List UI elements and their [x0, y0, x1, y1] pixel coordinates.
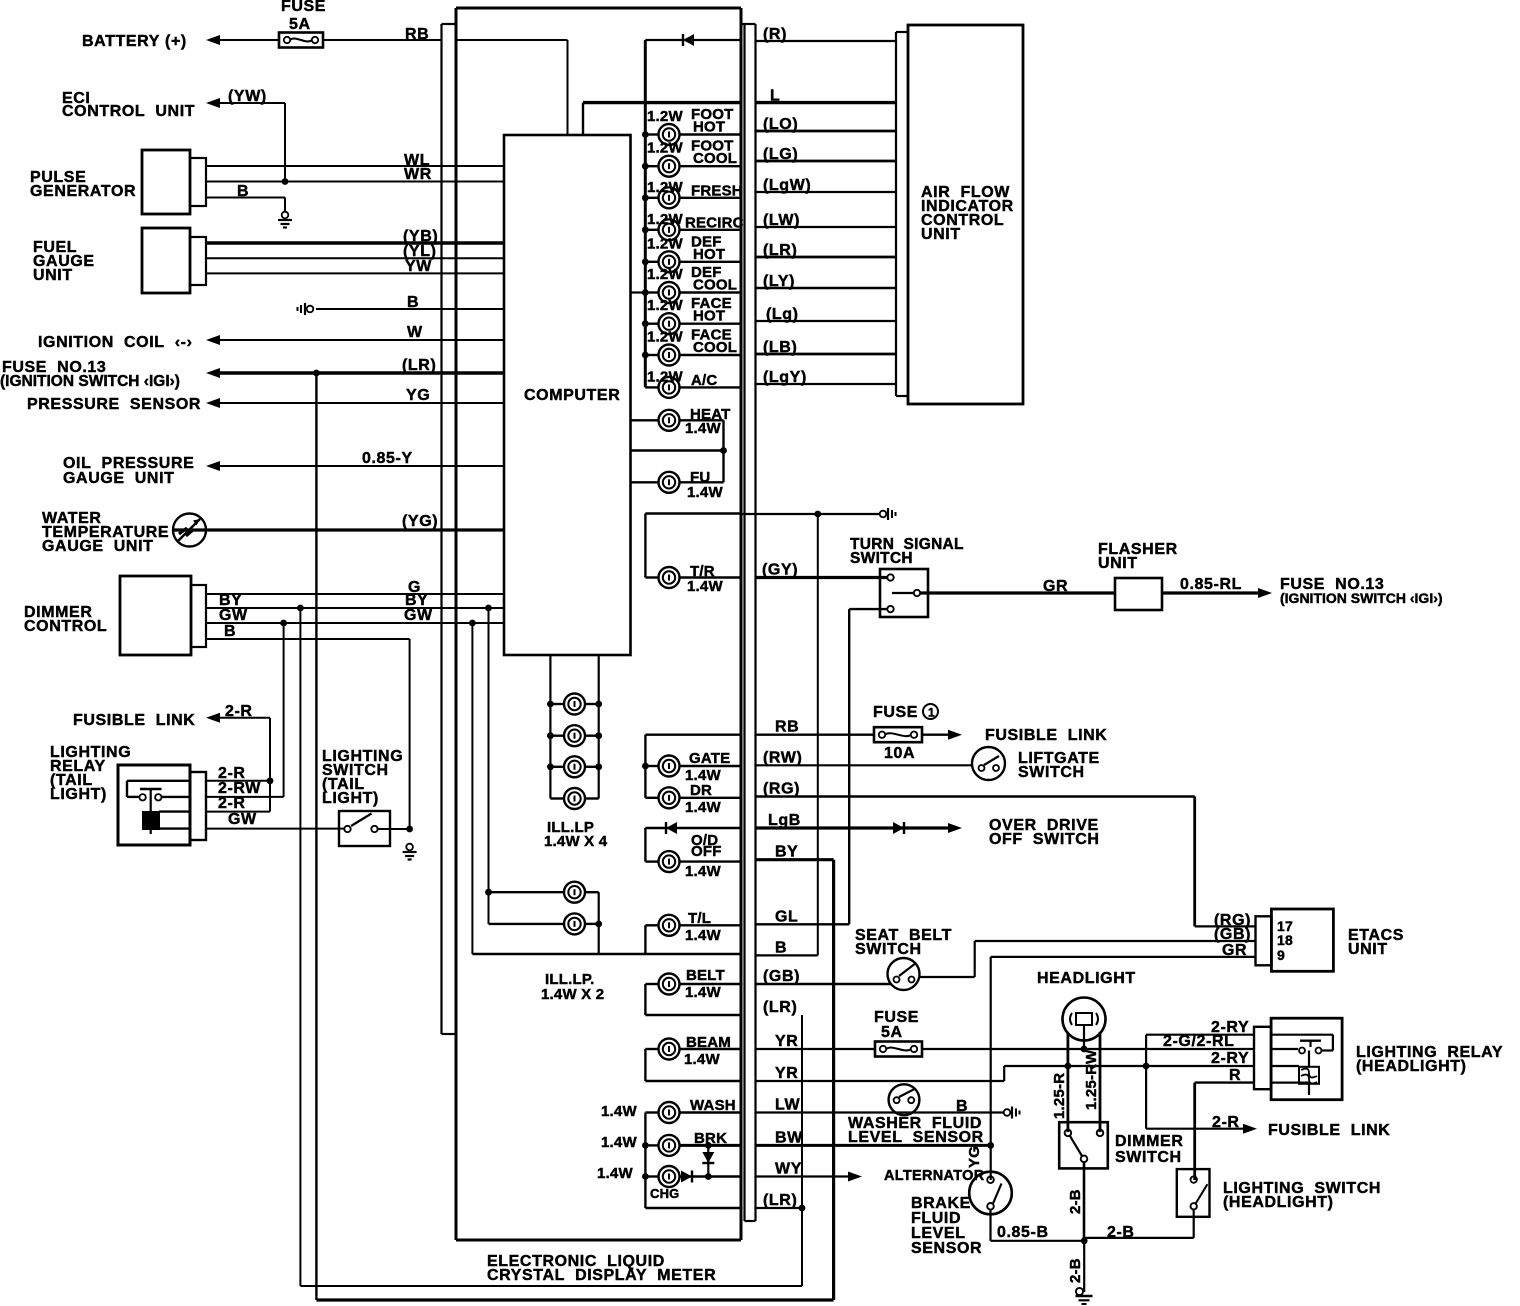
lamp BELT 1.4W [645, 974, 741, 995]
wire R vertical to lighting switch headlight [1193, 1083, 1196, 1180]
wire W [218, 339, 504, 341]
label FLASHER UNIT [1098, 541, 1178, 572]
wire seat belt to etacs riser [920, 941, 975, 977]
arrow to oil pressure gauge [206, 461, 220, 471]
wire RB inside meter to computer drop [456, 39, 568, 41]
lamp ILL.LP2-1 [485, 882, 599, 903]
svg-text:FUSIBLE LINK: FUSIBLE LINK [73, 712, 195, 729]
brake fluid level sensor symbol [969, 1172, 1012, 1215]
label FUSE 1 10A [873, 704, 938, 762]
svg-text:(GB): (GB) [763, 968, 800, 985]
svg-text:LIGHT): LIGHT) [50, 786, 107, 803]
dimmer control box [120, 576, 206, 655]
svg-text:LW: LW [775, 1097, 800, 1114]
wire (LW) to air flow unit [756, 226, 897, 228]
label RB right side [775, 719, 799, 736]
right connector strip [741, 24, 756, 1221]
label (RG) right side [763, 781, 800, 798]
label ELECTRONIC LIQUID CRYSTAL DISPLAY METER [487, 1253, 716, 1284]
label R relay [1229, 1067, 1241, 1084]
wire 2-G/2-RL fuse to relay [922, 1048, 1254, 1050]
svg-text:CONTROL UNIT: CONTROL UNIT [62, 103, 195, 120]
label BRAKE FLUID LEVEL SENSOR [911, 1195, 982, 1257]
lamp WASH 1.4W [645, 1102, 741, 1123]
label BW right side [775, 1129, 803, 1146]
wire GL up to turn signal [849, 609, 887, 924]
wire YR2 right [756, 1080, 1005, 1082]
label FUSE NO.13 (IGNITION SWITCH) right [1280, 576, 1443, 606]
lamp ILL.LP2-2 [489, 913, 603, 934]
label FUSE 5A right [874, 1009, 919, 1041]
wire 2-R fusible vertical [1145, 1035, 1147, 1129]
svg-text:RB: RB [775, 719, 799, 736]
label B pulse generator [237, 183, 249, 200]
lamp ILL.LP4-2 [547, 725, 602, 746]
wire diode feed horizontal y40 [645, 39, 741, 41]
label O/D OFF [685, 832, 722, 880]
label BY right [405, 592, 428, 609]
label B dimmer [224, 623, 236, 640]
label 0.85-Y [362, 450, 413, 467]
label (LR) right side [763, 999, 797, 1016]
wire BW to brake net [756, 1144, 991, 1147]
wire LR-net bottom horizontal [316, 1298, 833, 1301]
junction headlight tap [1081, 1046, 1088, 1053]
lamp FOOT COOL 1.2W [642, 156, 741, 177]
label HEADLIGHT [1037, 970, 1136, 987]
label FUSIBLE LINK left [73, 712, 195, 729]
wire (LR) fuse no13 [218, 371, 504, 374]
svg-text:(LY): (LY) [763, 273, 795, 290]
label (LO) [763, 116, 798, 133]
svg-text:B: B [237, 183, 249, 200]
lamp O/D OFF 1.4W [645, 851, 741, 872]
wire (RG) vertical [1193, 797, 1196, 927]
water temperature gauge symbol [173, 514, 206, 547]
wire (R) to air flow unit [756, 40, 897, 42]
label (Lg) [766, 306, 799, 323]
wire (YG) water temp [174, 528, 504, 531]
svg-text:2-RY: 2-RY [1211, 1019, 1249, 1036]
wire 2-RW relay pin2 [206, 796, 284, 798]
lamp BEAM 1.4W [645, 1039, 741, 1060]
svg-text:GL: GL [775, 908, 798, 925]
wire DEF COOL feed from computer [631, 291, 646, 293]
wire 2-RW vertical up to GW [283, 623, 285, 797]
junction (LR)/vertical 316 [313, 370, 320, 377]
wire fuse 10A to fusible link [922, 734, 948, 736]
label GR flasher [1043, 578, 1068, 595]
svg-text:FUSIBLE LINK: FUSIBLE LINK [1268, 1122, 1390, 1139]
wire (GB) to seat belt switch [756, 983, 892, 985]
junction 2-RY/1.25-R [1065, 1063, 1072, 1070]
computer box U1 [504, 135, 631, 655]
label WATER TEMPERATURE GAUGE UNIT [42, 510, 169, 555]
svg-text:1.2W: 1.2W [647, 235, 683, 252]
svg-text:2-R: 2-R [218, 795, 246, 812]
label OVER DRIVE OFF SWITCH [989, 817, 1100, 848]
lamp A/C 1.2W [645, 377, 741, 398]
svg-text:UNIT: UNIT [921, 226, 961, 243]
label (LB) [763, 339, 797, 356]
wire B down to ground [284, 198, 286, 213]
label 2-RY lower [1211, 1050, 1249, 1067]
svg-text:2-B: 2-B [1067, 1258, 1084, 1283]
svg-text:0.85-B: 0.85-B [997, 1224, 1049, 1241]
svg-text:1.2W: 1.2W [647, 297, 683, 314]
label 1.25-RW [1083, 1049, 1100, 1110]
label GL right side [775, 908, 798, 925]
wire (GB) to etacs pin 18 [975, 940, 1256, 942]
svg-text:2-R: 2-R [1212, 1114, 1240, 1131]
wire O/D cell top [645, 827, 741, 829]
svg-text:UNIT: UNIT [33, 267, 73, 284]
label LgB right side [768, 812, 801, 829]
label SEAT BELT SWITCH [855, 927, 952, 958]
label LIGHTING SWITCH (TAIL LIGHT) [322, 748, 403, 807]
wire BY-net vertical x300 [299, 608, 301, 1286]
lamp RECIRC 1.2W [642, 219, 741, 240]
fuse F2 10A symbol [874, 727, 922, 742]
label BEAM [684, 1034, 731, 1068]
wire (RW) to liftgate switch [756, 764, 973, 766]
svg-text:CRYSTAL DISPLAY METER: CRYSTAL DISPLAY METER [487, 1267, 716, 1284]
label BATTERY (+) [82, 33, 187, 50]
svg-text:L: L [770, 88, 780, 105]
junction GW/vertical 283 [280, 620, 287, 627]
svg-text:BEAM: BEAM [686, 1034, 731, 1051]
label FUSE NO.13 (IGNITION SWITCH) [0, 359, 180, 390]
label 2-RW [218, 780, 261, 797]
ill lamp rails from computer [550, 655, 598, 799]
wire RB to fuse 10A [756, 734, 875, 736]
svg-text:WASH: WASH [690, 1097, 736, 1114]
svg-text:(HEADLIGHT): (HEADLIGHT) [1356, 1058, 1467, 1075]
wire CHG cell bottom [645, 1207, 741, 1209]
chassis ground washer [1004, 1107, 1020, 1119]
svg-text:(Lg): (Lg) [766, 306, 799, 323]
label ETACS UNIT [1348, 927, 1404, 958]
wire T/L cell left edge [644, 925, 646, 954]
junction BW/GR [987, 1142, 994, 1149]
wire (LgW) to air flow unit [756, 191, 897, 193]
svg-text:YR: YR [775, 1033, 798, 1050]
junction 2-R [267, 777, 274, 784]
lamp HEAT 1.4W [631, 410, 724, 431]
svg-text:1.4W: 1.4W [685, 420, 721, 437]
label AIR FLOW INDICATOR CONTROL UNIT [921, 184, 1014, 243]
lamp T/R 1.4W [645, 567, 741, 588]
wire (LR)2 right [756, 1207, 803, 1209]
label YR right side [775, 1033, 798, 1050]
svg-text:(R): (R) [763, 26, 787, 43]
wire 2-R relay pin1 [206, 780, 270, 782]
svg-text:1.4W: 1.4W [687, 484, 723, 501]
svg-text:LEVEL SENSOR: LEVEL SENSOR [848, 1129, 984, 1146]
svg-text:GW: GW [219, 607, 248, 624]
arrow to fusible link left [206, 713, 220, 723]
label PRESSURE SENSOR [27, 396, 201, 413]
wire G dimmer [206, 593, 504, 595]
lighting relay headlight connector strip [1254, 1027, 1271, 1089]
ground pulse generator [278, 212, 292, 228]
label FACE HOT [647, 295, 732, 325]
svg-text:1.4W: 1.4W [601, 1103, 637, 1120]
wire 1.25-RW headlight to dimmer switch [1099, 1032, 1102, 1132]
svg-text:18: 18 [1277, 932, 1293, 948]
svg-text:YR: YR [775, 1065, 798, 1082]
label DIMMER SWITCH [1115, 1133, 1183, 1166]
lamp T/L 1.4W [645, 915, 741, 936]
junction 2-RY/fusible vertical [1143, 1063, 1150, 1070]
wire lighting switch tail to B vertical [378, 828, 410, 830]
label 2-R pin1 [218, 765, 246, 782]
svg-text:ALTERNATOR: ALTERNATOR [884, 1168, 985, 1184]
fuel gauge unit box [142, 228, 206, 293]
label GW near connector [219, 607, 248, 624]
label IGNITION COIL [38, 334, 193, 351]
label (GY) right side [762, 562, 798, 579]
label FOOT HOT [647, 106, 733, 136]
svg-text:A/C: A/C [691, 372, 717, 389]
arrow over drive [948, 823, 962, 833]
fuse F1 5A symbol [279, 33, 323, 48]
wire WL [206, 165, 504, 167]
wire GW dimmer [206, 622, 504, 624]
svg-text:UNIT: UNIT [1098, 555, 1138, 572]
wire GW relay pin4 to lighting switch [206, 828, 344, 830]
wire LR-net vertical x833 up [832, 860, 835, 1300]
label OIL PRESSURE GAUGE UNIT [63, 455, 194, 487]
diode CHG [681, 1171, 692, 1183]
svg-text:0.85-RL: 0.85-RL [1180, 576, 1242, 593]
junction tail switch / B vertical [406, 826, 413, 833]
lamp FACE COOL 1.2W [642, 345, 741, 366]
label YG vertical [966, 1146, 983, 1168]
svg-text:HOT: HOT [693, 246, 725, 263]
diode BRK vertical [702, 1142, 714, 1180]
lighting relay tail box [118, 765, 206, 845]
svg-text:(LR): (LR) [763, 242, 797, 259]
lamp CHG 1.4W [642, 1166, 741, 1187]
wire (LY) to air flow unit [756, 287, 897, 289]
wire 2-B to ground [1083, 1241, 1085, 1292]
arrow to pressure sensor [206, 398, 220, 408]
label YR2 right side [775, 1065, 798, 1082]
arrow to fuse no13 [206, 368, 220, 378]
air flow connector strip [896, 32, 908, 396]
wire BY dimmer [206, 607, 504, 609]
wire 2-RY upper to relay [1146, 1034, 1254, 1036]
svg-text:SWITCH: SWITCH [1018, 764, 1085, 781]
svg-text:2-B: 2-B [1107, 1224, 1135, 1241]
junction 2-B [1081, 1237, 1088, 1244]
svg-text:1.4W X 2: 1.4W X 2 [541, 986, 604, 1003]
wire (YW) vertical to WR junction [284, 103, 286, 182]
svg-text:DIMMER: DIMMER [1115, 1133, 1183, 1150]
washer fluid level sensor symbol [889, 1084, 920, 1115]
wire fusible link 2-R [218, 717, 270, 719]
label etacs pins 17 18 9 [1277, 918, 1293, 963]
wire (YB) [206, 241, 504, 244]
wire brake sensor output [991, 1210, 1085, 1241]
wire (LgY) to air flow unit [756, 383, 897, 385]
wire GATE cell left edge [644, 735, 646, 798]
fuse 5A label top-left [281, 0, 326, 33]
label (GB) etacs [1214, 926, 1251, 943]
label BY right side [775, 844, 798, 861]
svg-text:1.2W: 1.2W [647, 368, 683, 385]
svg-text:GAUGE UNIT: GAUGE UNIT [42, 538, 154, 555]
wire ground line y514 [741, 513, 880, 515]
wire L horizontal [583, 101, 741, 104]
arrow to fuse no13 right [1258, 588, 1272, 598]
label WL [404, 152, 430, 169]
label (YW) [228, 88, 267, 105]
wire (LR) to air flow unit [756, 256, 897, 259]
svg-text:BW: BW [775, 1129, 803, 1146]
svg-text:FUSE: FUSE [281, 0, 326, 15]
svg-text:T/L: T/L [688, 910, 711, 927]
ETACS unit box [1271, 909, 1333, 971]
svg-text:(LgW): (LgW) [763, 177, 811, 194]
svg-text:B: B [407, 294, 419, 311]
label (R) [763, 26, 787, 43]
svg-text:LIGHT): LIGHT) [322, 790, 379, 807]
label BRK [601, 1130, 727, 1151]
svg-text:UNIT: UNIT [1348, 941, 1388, 958]
left connector strip [442, 24, 457, 1034]
lighting relay headlight internals [1271, 1035, 1333, 1095]
wire GW-net vertical x472 [471, 623, 473, 954]
wire BY right to LR-net vertical [756, 858, 834, 861]
wire (RG) to etacs pin 17 [1195, 925, 1256, 927]
label BELT [685, 967, 725, 1001]
svg-text:RECIRC: RECIRC [685, 214, 744, 231]
label HEAT [685, 406, 731, 437]
label 2-R top [225, 703, 253, 720]
svg-text:1.4W: 1.4W [685, 984, 721, 1001]
junction GW/vertical 472 [469, 620, 476, 627]
wire 2-R to fusible link [1146, 1128, 1243, 1130]
label DR [685, 782, 721, 816]
svg-text:(LgY): (LgY) [763, 369, 807, 386]
arrow alternator [848, 1172, 862, 1182]
wire (RG) to ETACS [756, 795, 1195, 797]
label CHG [597, 1165, 680, 1201]
label FUSIBLE LINK right [985, 727, 1107, 744]
flasher unit box [1115, 578, 1162, 610]
junction heat/fu [720, 447, 727, 454]
label RB [405, 26, 429, 43]
wire BEAM cell left+bottom [645, 1049, 741, 1081]
chassis ground turn signal area [880, 508, 896, 520]
lamp FACE HOT 1.2W [642, 313, 741, 334]
svg-text:HOT: HOT [693, 308, 725, 325]
dimmer switch contacts and blade [1065, 1130, 1104, 1163]
wire (YW) horizontal [218, 102, 285, 104]
label (LY) [763, 273, 795, 290]
label (LR) [763, 242, 797, 259]
seat belt switch symbol [888, 958, 920, 990]
label GW right [404, 607, 433, 624]
svg-text:YG: YG [966, 1146, 983, 1168]
label ILL.LP 1.4W X 4 [544, 819, 608, 850]
wire BY-net vertical x802 up [801, 1015, 803, 1286]
wire BY-net vertical x488 to ill lamps [488, 608, 490, 924]
wire (LG) to air flow unit [756, 160, 897, 163]
svg-text:BELT: BELT [686, 967, 725, 984]
diode O/D [666, 822, 677, 834]
electronic liquid crystal display meter box [456, 8, 741, 1240]
label (LW) [763, 212, 800, 229]
label TURN SIGNAL SWITCH [850, 536, 964, 567]
svg-text:BATTERY (+): BATTERY (+) [82, 33, 187, 50]
svg-text:(IGNITION SWITCH ‹IGI›): (IGNITION SWITCH ‹IGI›) [1280, 590, 1443, 606]
label (LgY) [763, 369, 807, 386]
wire T/R top [645, 512, 741, 514]
svg-text:FRESH: FRESH [691, 182, 743, 199]
svg-text:1.4W: 1.4W [685, 927, 721, 944]
wire WY to alternator [756, 1175, 849, 1177]
wire B right to ground net [756, 954, 818, 956]
label FUSIBLE LINK bottom [1268, 1122, 1390, 1139]
lamp ILL.LP4-3 [547, 756, 602, 777]
wire B dimmer [206, 638, 410, 640]
lighting relay headlight box [1271, 1018, 1342, 1099]
svg-text:10A: 10A [884, 745, 915, 762]
label PULSE GENERATOR [30, 169, 136, 200]
svg-text:SWITCH: SWITCH [850, 550, 913, 567]
svg-text:(LO): (LO) [763, 116, 798, 133]
svg-text:(LR): (LR) [763, 999, 797, 1016]
label DEF HOT [647, 233, 725, 262]
wire BELT cell left+bottom [645, 984, 741, 1015]
lamp DEF HOT 1.2W [642, 251, 741, 272]
svg-text:OFF: OFF [691, 843, 722, 860]
wire ground net vertical x818 [817, 514, 819, 955]
wire 2-RY lower to relay [1004, 1065, 1254, 1067]
label B right side [775, 939, 787, 956]
wire lighting switch headlight output [1084, 1210, 1194, 1238]
lamp FRESH 1.2W [642, 187, 741, 208]
svg-text:CHG: CHG [650, 1186, 680, 1201]
wire B chassis to computer [316, 308, 504, 310]
wire dimmer switch output [1083, 1162, 1086, 1241]
label L [770, 88, 780, 105]
turn signal switch box [880, 569, 928, 617]
label 1.25-R [1051, 1073, 1068, 1119]
lighting switch headlight box [1177, 1169, 1210, 1217]
svg-text:0.85-Y: 0.85-Y [362, 450, 413, 467]
label 2-B right [1107, 1224, 1135, 1241]
label ALTERNATOR [884, 1168, 985, 1184]
svg-text:1.2W: 1.2W [647, 108, 683, 125]
label LIGHTING SWITCH (HEADLIGHT) [1223, 1180, 1381, 1211]
svg-text:(HEADLIGHT): (HEADLIGHT) [1223, 1194, 1334, 1211]
svg-text:1.4W: 1.4W [685, 863, 721, 880]
svg-text:COOL: COOL [693, 277, 737, 294]
label B washer [956, 1098, 968, 1115]
wire WASH cell left edge [644, 1113, 646, 1209]
svg-text:PRESSURE SENSOR: PRESSURE SENSOR [27, 396, 201, 413]
lighting relay tail internals [127, 781, 190, 834]
label 2-RY upper [1211, 1019, 1249, 1036]
label (LG) [763, 146, 798, 163]
wire headlight center tap [1083, 1025, 1085, 1049]
label 2-B lower [1067, 1258, 1084, 1283]
svg-text:1.25-RW: 1.25-RW [1083, 1049, 1100, 1110]
